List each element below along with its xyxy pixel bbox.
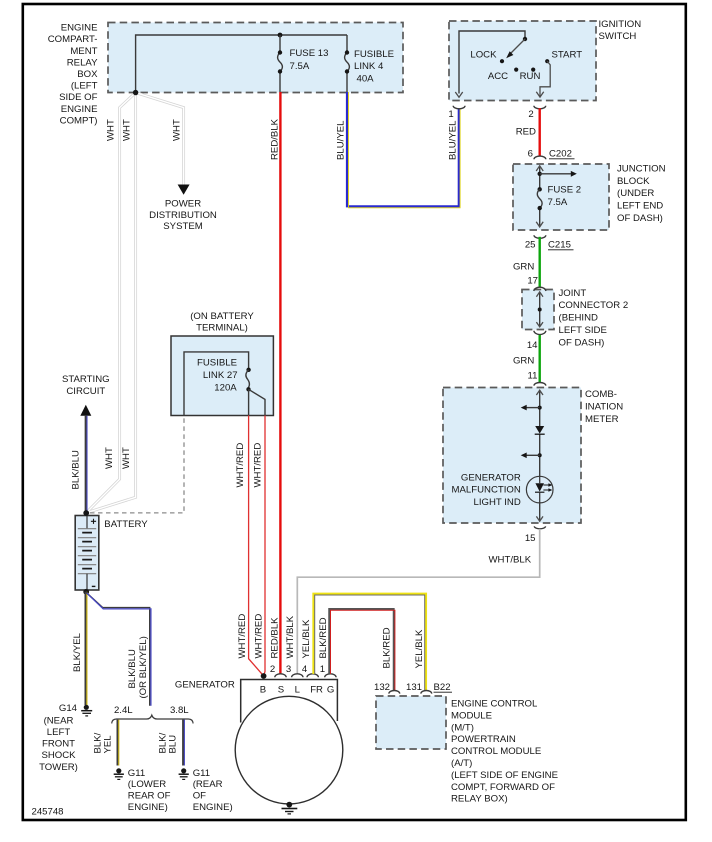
tap arrow left 2 — [521, 453, 542, 459]
node junction at relay box bottom — [133, 90, 138, 95]
connector bump generator G — [325, 674, 336, 677]
svg-text:2.4L: 2.4L — [114, 705, 133, 716]
wire BLK/BLU to starting circuit — [86, 416, 87, 513]
wire bus inside relay box — [136, 35, 347, 93]
svg-text:B: B — [260, 684, 266, 695]
svg-text:LIGHT IND: LIGHT IND — [474, 497, 521, 508]
svg-text:3: 3 — [286, 664, 291, 675]
svg-text:(A/T): (A/T) — [451, 758, 472, 769]
connector bump generator S — [275, 674, 286, 677]
svg-text:GENERATOR: GENERATOR — [461, 472, 521, 483]
svg-text:2: 2 — [270, 664, 275, 675]
svg-text:1: 1 — [320, 664, 325, 675]
junction block box — [513, 163, 666, 230]
connector bump generator L — [292, 674, 303, 677]
combination meter box — [443, 388, 623, 524]
ground G11 lower rear — [114, 768, 124, 779]
svg-text:RED/BLK: RED/BLK — [269, 617, 280, 659]
wire BLK/YEL from battery to G14 — [86, 592, 87, 705]
svg-text:WHT/BLK: WHT/BLK — [285, 615, 296, 658]
ignition contact START — [545, 59, 549, 63]
wire WHT branch 2 to battery — [87, 93, 136, 513]
svg-text:WHT: WHT — [121, 447, 132, 469]
wire BLK/BLU 3.8L drop — [183, 720, 184, 766]
svg-text:REAR OF: REAR OF — [128, 790, 171, 801]
ignition switch box — [449, 19, 641, 101]
svg-text:BLK/BLU: BLK/BLU — [127, 649, 138, 689]
svg-text:START: START — [552, 49, 583, 60]
svg-text:COMPT, FORWARD OF: COMPT, FORWARD OF — [451, 782, 555, 793]
svg-text:BATTERY: BATTERY — [104, 519, 148, 530]
arrow to starting circuit — [80, 405, 91, 416]
svg-text:FRONT: FRONT — [42, 739, 75, 750]
svg-text:FUSE 13: FUSE 13 — [290, 48, 329, 59]
svg-text:CONTROL MODULE: CONTROL MODULE — [451, 746, 541, 757]
joint connector 2 box — [522, 288, 628, 349]
tap arrow left 1 — [521, 405, 542, 411]
generator terminal block — [241, 680, 338, 723]
connector pin 2 of ignition switch — [528, 106, 545, 120]
svg-text:SWITCH: SWITCH — [599, 31, 637, 42]
svg-text:YEL/BLK: YEL/BLK — [414, 629, 425, 669]
junction block internal wire with arrows — [536, 166, 543, 227]
svg-text:TERMINAL): TERMINAL) — [196, 323, 248, 334]
svg-text:GRN: GRN — [513, 261, 534, 272]
connector B22 label — [434, 682, 453, 693]
ground G11 rear — [179, 768, 189, 779]
svg-text:BLU/YEL: BLU/YEL — [336, 120, 347, 160]
arrow to power distribution system — [178, 185, 190, 195]
label BLK/BLU (OR BLK/YEL) — [127, 636, 149, 698]
svg-text:ACC: ACC — [488, 71, 508, 82]
wire WHT branch 3 to power distribution — [136, 93, 184, 185]
battery — [75, 516, 148, 591]
engine control module box — [376, 696, 558, 805]
svg-text:POWERTRAIN: POWERTRAIN — [451, 734, 516, 745]
brace for 2.4L / 3.8L split — [112, 715, 193, 723]
node battery negative — [83, 589, 89, 595]
svg-text:LEFT: LEFT — [47, 727, 71, 738]
svg-text:C215: C215 — [548, 240, 571, 251]
svg-text:WHT/BLK: WHT/BLK — [489, 555, 532, 566]
ignition contact LOCK — [500, 59, 504, 63]
wire from START to pin 2 — [536, 61, 550, 97]
dashed link battery terminal — [90, 417, 184, 513]
diode symbol — [535, 426, 545, 434]
svg-text:(REAR: (REAR — [193, 779, 223, 790]
svg-text:ENGINE: ENGINE — [61, 104, 98, 115]
svg-text:4: 4 — [302, 664, 308, 675]
svg-text:G: G — [327, 684, 334, 695]
svg-text:YEL: YEL — [103, 735, 114, 754]
wire WHT/BLK from meter to generator L — [297, 529, 539, 674]
svg-text:OF DASH): OF DASH) — [617, 213, 663, 224]
svg-text:BOX: BOX — [77, 69, 98, 80]
node junction at generator B — [261, 673, 267, 679]
svg-text:C202: C202 — [549, 149, 572, 160]
fusible link FL27 120A element — [184, 352, 265, 416]
svg-text:WHT/RED: WHT/RED — [254, 614, 265, 659]
svg-text:BLK/RED: BLK/RED — [382, 627, 393, 668]
connector bump PCM 131 — [406, 682, 432, 694]
node junction on bus — [278, 33, 283, 38]
svg-text:ENGINE: ENGINE — [61, 23, 98, 34]
svg-text:(UNDER: (UNDER — [617, 188, 654, 199]
wire RED/BLK from fuse 13 to generator S — [279, 92, 281, 674]
svg-text:RUN: RUN — [520, 71, 541, 82]
svg-text:BLU/YEL: BLU/YEL — [448, 120, 459, 160]
svg-text:ENGINE): ENGINE) — [193, 802, 233, 813]
svg-text:METER: METER — [585, 414, 619, 425]
svg-text:17: 17 — [527, 276, 538, 287]
wire BLU/YEL from fusible link 4 to ignition switch pin 1 — [347, 92, 460, 208]
label G11 (REAR OF ENGINE) — [193, 768, 233, 813]
svg-text:LINK 4: LINK 4 — [354, 61, 384, 72]
connector C202 pin 6 — [528, 149, 575, 160]
svg-text:G11: G11 — [128, 768, 145, 779]
svg-text:(M/T): (M/T) — [451, 722, 474, 733]
svg-text:15: 15 — [525, 533, 536, 544]
label BLK/ BLU — [157, 732, 178, 753]
label POWER DISTRIBUTION SYSTEM — [149, 199, 217, 233]
svg-text:(ON BATTERY: (ON BATTERY — [190, 311, 254, 322]
svg-text:6: 6 — [528, 149, 533, 160]
label GENERATOR MALFUNCTION LIGHT IND — [452, 472, 521, 508]
wire RED from ignition to C202 — [539, 108, 541, 156]
svg-text:S: S — [278, 684, 284, 695]
svg-text:CONNECTOR 2: CONNECTOR 2 — [559, 300, 629, 311]
svg-text:11: 11 — [528, 371, 538, 382]
svg-text:GRN: GRN — [513, 355, 534, 366]
svg-text:BLOCK: BLOCK — [617, 176, 650, 187]
svg-text:INATION: INATION — [585, 402, 623, 413]
wire WHT branch 1 to battery — [87, 93, 136, 513]
svg-text:IGNITION: IGNITION — [599, 19, 642, 30]
svg-text:STARTING: STARTING — [62, 374, 110, 385]
svg-text:RED/BLK: RED/BLK — [269, 118, 280, 160]
svg-text:(NEAR: (NEAR — [44, 715, 74, 726]
ignition contact ACC — [514, 68, 518, 72]
svg-text:ENGINE CONTROL: ENGINE CONTROL — [451, 699, 538, 710]
svg-text:COMPT): COMPT) — [60, 115, 98, 126]
svg-text:WHT/RED: WHT/RED — [237, 614, 248, 659]
svg-text:G14: G14 — [59, 703, 78, 714]
svg-text:G11: G11 — [193, 768, 210, 779]
label BLK/ YEL — [93, 732, 114, 753]
svg-text:OF: OF — [193, 790, 206, 801]
ground G14 — [81, 705, 92, 716]
combination meter bottom bump pin 15 — [525, 526, 546, 543]
svg-text:B22: B22 — [434, 682, 451, 693]
connector bump PCM 132 — [374, 682, 400, 694]
svg-text:WHT/RED: WHT/RED — [235, 443, 246, 488]
svg-text:BLK/RED: BLK/RED — [318, 617, 329, 658]
combination meter internal wire — [536, 390, 543, 521]
svg-text:LINK 27: LINK 27 — [203, 370, 238, 381]
svg-text:WHT: WHT — [122, 119, 133, 141]
svg-text:40A: 40A — [357, 74, 375, 85]
fuse FUSE 2 7.5A — [537, 185, 581, 211]
svg-text:LOCK: LOCK — [470, 49, 497, 60]
svg-text:RED: RED — [516, 127, 536, 138]
joint connector internal wire — [536, 292, 543, 327]
svg-text:(BEHIND: (BEHIND — [559, 313, 599, 324]
fusible link FL4 40A — [345, 35, 394, 92]
connector bump generator FR — [307, 674, 318, 677]
svg-text:25: 25 — [525, 240, 536, 251]
svg-text:JOINT: JOINT — [559, 288, 587, 299]
branch arrow to right inside junction block — [538, 171, 577, 177]
label G14 (NEAR LEFT FRONT SHOCK TOWER) — [39, 703, 78, 773]
svg-text:FR: FR — [310, 684, 323, 695]
generator malfunction light indicator LED — [526, 476, 553, 503]
svg-text:245748: 245748 — [32, 806, 64, 817]
svg-text:JUNCTION: JUNCTION — [617, 163, 666, 174]
svg-text:WHT: WHT — [104, 447, 115, 469]
svg-text:131: 131 — [406, 682, 422, 693]
svg-text:BLK/BLU: BLK/BLU — [71, 450, 82, 490]
wire GRN to combination meter — [539, 335, 541, 383]
svg-text:OF DASH): OF DASH) — [559, 337, 605, 348]
svg-text:TOWER): TOWER) — [39, 762, 78, 773]
connector pin 1 of ignition switch — [448, 106, 465, 120]
svg-text:RELAY: RELAY — [67, 57, 98, 68]
svg-text:1: 1 — [448, 109, 453, 120]
svg-text:CIRCUIT: CIRCUIT — [66, 386, 105, 397]
generator body circle — [235, 696, 343, 804]
svg-text:BLK/YEL: BLK/YEL — [72, 632, 83, 672]
svg-text:7.5A: 7.5A — [290, 61, 310, 72]
svg-text:MODULE: MODULE — [451, 710, 492, 721]
svg-text:SIDE OF: SIDE OF — [59, 92, 98, 103]
svg-text:7.5A: 7.5A — [548, 197, 568, 208]
svg-text:LEFT END: LEFT END — [617, 201, 663, 212]
wire WHT/RED 2 from FL27 to generator B — [264, 416, 265, 676]
svg-text:2: 2 — [528, 109, 533, 120]
wire BLK/YEL 2.4L drop — [118, 720, 119, 766]
label (ON BATTERY TERMINAL) — [190, 311, 254, 334]
wire YEL/BLK from generator FR to PCM 131 — [313, 594, 426, 691]
svg-text:ENGINE): ENGINE) — [128, 802, 168, 813]
svg-text:132: 132 — [374, 682, 390, 693]
svg-text:LEFT SIDE: LEFT SIDE — [559, 325, 607, 336]
wire GRN from C215 to joint connector — [539, 237, 541, 287]
svg-text:(LEFT: (LEFT — [71, 81, 98, 92]
wire BLK/RED from generator G to PCM 132 — [329, 609, 395, 691]
svg-text:(LEFT SIDE OF ENGINE: (LEFT SIDE OF ENGINE — [451, 770, 558, 781]
svg-text:FUSE 2: FUSE 2 — [548, 185, 582, 196]
generator case ground — [282, 802, 298, 814]
joint connector bumps — [534, 287, 546, 334]
engine compartment relay box — [48, 23, 403, 127]
ignition contact RUN — [531, 68, 535, 72]
svg-text:(OR BLK/YEL): (OR BLK/YEL) — [138, 636, 149, 698]
label STARTING CIRCUIT — [62, 374, 110, 397]
svg-text:SHOCK: SHOCK — [41, 750, 76, 761]
svg-text:COMB-: COMB- — [585, 389, 617, 400]
combination meter top bump pin 11 — [534, 383, 546, 386]
svg-text:FUSIBLE: FUSIBLE — [197, 357, 237, 368]
svg-text:POWER: POWER — [165, 199, 201, 210]
node battery positive — [83, 510, 89, 516]
svg-text:14: 14 — [527, 340, 538, 351]
svg-text:(LOWER: (LOWER — [128, 779, 166, 790]
label G11 (LOWER REAR OF ENGINE) — [128, 768, 171, 813]
svg-text:MALFUNCTION: MALFUNCTION — [452, 485, 521, 496]
fusible link FL27 box — [171, 336, 273, 416]
svg-text:BLU: BLU — [167, 735, 178, 754]
svg-text:WHT: WHT — [106, 119, 117, 141]
svg-text:MENT: MENT — [70, 46, 97, 57]
ignition switch internal wiring — [455, 31, 527, 97]
svg-text:FUSIBLE: FUSIBLE — [354, 49, 394, 60]
svg-text:L: L — [295, 684, 301, 695]
wire BLK/BLU from battery to engine grounds — [86, 592, 151, 706]
svg-text:GENERATOR: GENERATOR — [175, 680, 235, 691]
svg-text:120A: 120A — [214, 382, 237, 393]
svg-text:3.8L: 3.8L — [170, 705, 189, 716]
svg-text:SYSTEM: SYSTEM — [163, 221, 202, 232]
svg-text:DISTRIBUTION: DISTRIBUTION — [149, 210, 217, 221]
fuse FUSE 13 7.5A — [278, 35, 329, 92]
svg-text:WHT/RED: WHT/RED — [253, 443, 264, 488]
svg-text:RELAY BOX): RELAY BOX) — [451, 794, 508, 805]
svg-text:YEL/BLK: YEL/BLK — [301, 619, 312, 659]
connector C215 pin 25 — [525, 235, 574, 250]
svg-text:WHT: WHT — [172, 119, 183, 141]
svg-text:COMPART-: COMPART- — [48, 34, 98, 45]
wire WHT/RED 1 from FL27 to generator B — [249, 416, 264, 676]
